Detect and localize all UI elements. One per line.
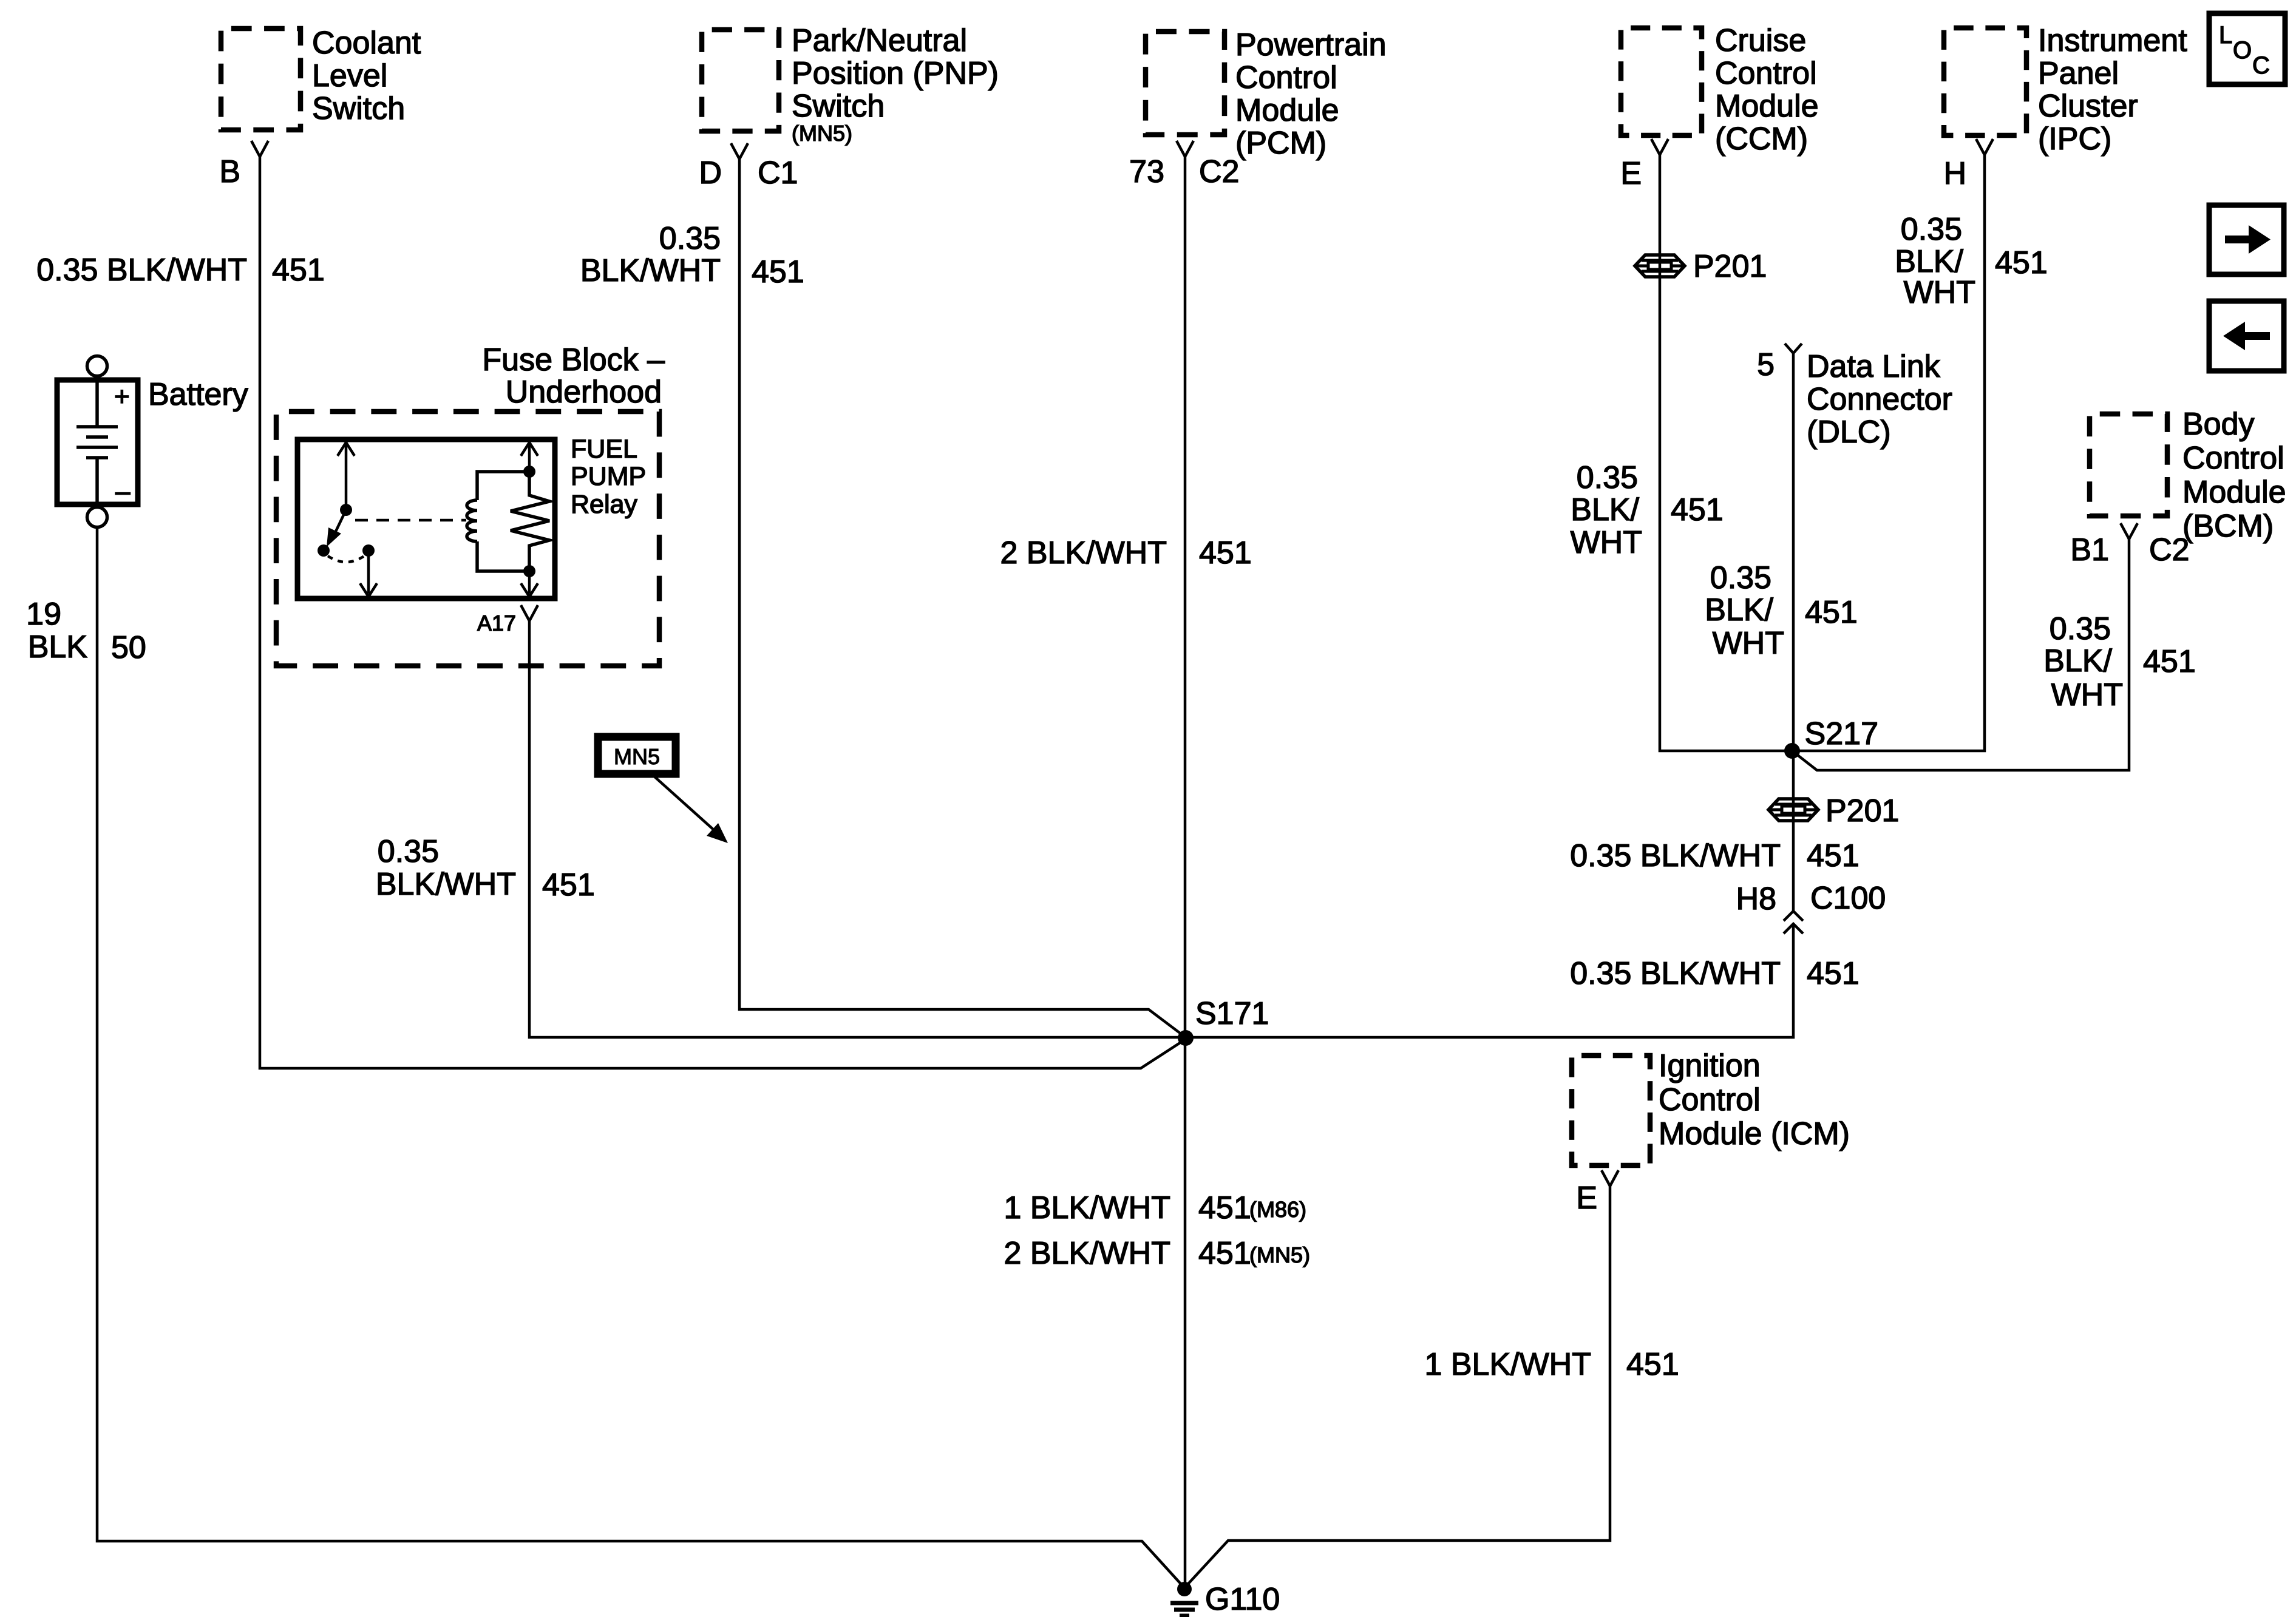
svg-text:Switch: Switch [312,91,405,126]
svg-text:2 BLK/WHT: 2 BLK/WHT [1000,535,1167,571]
svg-text:G110: G110 [1205,1582,1280,1617]
svg-text:Battery: Battery [148,377,248,412]
svg-text:B: B [219,154,240,189]
svg-text:0.35: 0.35 [659,221,721,256]
svg-text:Control: Control [1235,60,1337,95]
svg-text:451: 451 [752,254,804,290]
svg-text:0.35: 0.35 [2050,611,2111,646]
svg-text:(MN5): (MN5) [1249,1242,1310,1267]
svg-text:(CCM): (CCM) [1715,121,1808,157]
svg-text:C1: C1 [758,155,798,191]
svg-text:BLK/WHT: BLK/WHT [580,253,721,288]
svg-text:73: 73 [1129,154,1164,189]
svg-text:0.35 BLK/WHT: 0.35 BLK/WHT [1570,956,1781,991]
svg-text:451: 451 [1805,595,1858,630]
svg-text:451: 451 [1807,838,1860,873]
svg-text:S171: S171 [1195,996,1269,1031]
svg-text:Level: Level [312,58,387,93]
svg-text:2 BLK/WHT: 2 BLK/WHT [1004,1236,1171,1271]
svg-text:(DLC): (DLC) [1807,415,1891,450]
svg-text:0.35: 0.35 [378,834,439,869]
svg-text:Data Link: Data Link [1807,349,1941,384]
svg-text:451: 451 [2143,644,2196,679]
svg-text:Powertrain: Powertrain [1235,27,1387,63]
svg-text:B1: B1 [2070,532,2109,568]
svg-text:451: 451 [1995,245,2048,280]
svg-text:BLK/: BLK/ [1571,492,1639,527]
svg-text:Body: Body [2182,407,2255,442]
svg-text:WHT: WHT [2051,677,2123,713]
svg-text:A17: A17 [477,611,516,636]
svg-text:Module: Module [1235,93,1339,128]
svg-text:(M86): (M86) [1249,1197,1306,1222]
svg-text:(MN5): (MN5) [792,121,852,146]
svg-text:0.35 BLK/WHT: 0.35 BLK/WHT [1570,838,1781,873]
svg-text:L: L [2219,22,2232,49]
svg-text:MN5: MN5 [614,744,660,769]
svg-text:BLK/WHT: BLK/WHT [376,867,516,902]
svg-text:451: 451 [1198,1190,1251,1225]
svg-text:451: 451 [1626,1347,1679,1382]
svg-text:D: D [699,155,722,191]
svg-text:Park/Neutral: Park/Neutral [792,23,967,58]
svg-text:50: 50 [111,630,146,665]
svg-text:Switch: Switch [792,89,885,124]
svg-text:5: 5 [1757,347,1775,382]
svg-text:1 BLK/WHT: 1 BLK/WHT [1425,1347,1592,1382]
svg-text:C2: C2 [1199,154,1239,189]
svg-text:+: + [114,382,130,412]
svg-text:BLK: BLK [28,629,88,665]
svg-text:H: H [1943,156,1966,191]
svg-text:Control: Control [2182,441,2284,476]
svg-text:P201: P201 [1826,793,1899,829]
svg-text:451: 451 [1199,535,1252,571]
svg-text:Module: Module [2182,475,2286,510]
svg-text:O: O [2233,37,2252,64]
svg-text:PUMP: PUMP [571,462,646,491]
svg-text:FUEL: FUEL [571,435,637,464]
svg-text:(IPC): (IPC) [2038,121,2111,157]
svg-text:–: – [115,476,131,506]
svg-text:WHT: WHT [1571,525,1642,560]
svg-text:Module: Module [1715,89,1819,124]
svg-text:WHT: WHT [1713,626,1784,661]
svg-text:0.35: 0.35 [1901,212,1962,247]
svg-text:0.35: 0.35 [1710,560,1771,595]
svg-text:Position (PNP): Position (PNP) [792,56,999,91]
svg-text:Cruise: Cruise [1715,23,1806,58]
svg-text:BLK/: BLK/ [1895,244,1963,279]
svg-text:(BCM): (BCM) [2182,509,2274,544]
svg-text:Connector: Connector [1807,382,1952,417]
svg-text:(PCM): (PCM) [1235,126,1326,161]
svg-text:P201: P201 [1693,249,1767,284]
svg-text:BLK/: BLK/ [2043,643,2112,679]
svg-text:Module (ICM): Module (ICM) [1659,1116,1850,1151]
svg-text:19: 19 [26,597,61,632]
svg-text:Control: Control [1659,1082,1761,1117]
svg-text:Fuse Block –: Fuse Block – [482,342,665,378]
svg-text:C2: C2 [2149,532,2189,568]
svg-text:Cluster: Cluster [2038,89,2138,124]
svg-text:Relay: Relay [571,490,637,519]
svg-text:E: E [1620,156,1642,191]
svg-text:451: 451 [542,867,595,903]
svg-text:H8: H8 [1736,881,1776,917]
svg-text:Coolant: Coolant [312,25,421,61]
svg-text:C100: C100 [1810,881,1886,916]
svg-text:Underhood: Underhood [506,375,662,410]
svg-text:E: E [1576,1181,1597,1216]
svg-text:451: 451 [1807,956,1860,991]
svg-text:1 BLK/WHT: 1 BLK/WHT [1004,1190,1171,1225]
svg-text:Ignition: Ignition [1659,1048,1761,1083]
svg-text:Panel: Panel [2038,56,2119,91]
svg-text:451: 451 [272,253,325,288]
svg-text:BLK/: BLK/ [1705,592,1773,628]
svg-text:C: C [2252,52,2270,79]
svg-text:WHT: WHT [1904,275,1975,310]
svg-text:451: 451 [1671,492,1724,527]
svg-text:0.35 BLK/WHT: 0.35 BLK/WHT [36,253,247,288]
svg-text:451: 451 [1198,1236,1251,1271]
svg-text:0.35: 0.35 [1577,460,1638,495]
svg-text:Instrument: Instrument [2038,23,2187,58]
svg-text:Control: Control [1715,56,1817,91]
svg-text:S217: S217 [1805,716,1878,751]
